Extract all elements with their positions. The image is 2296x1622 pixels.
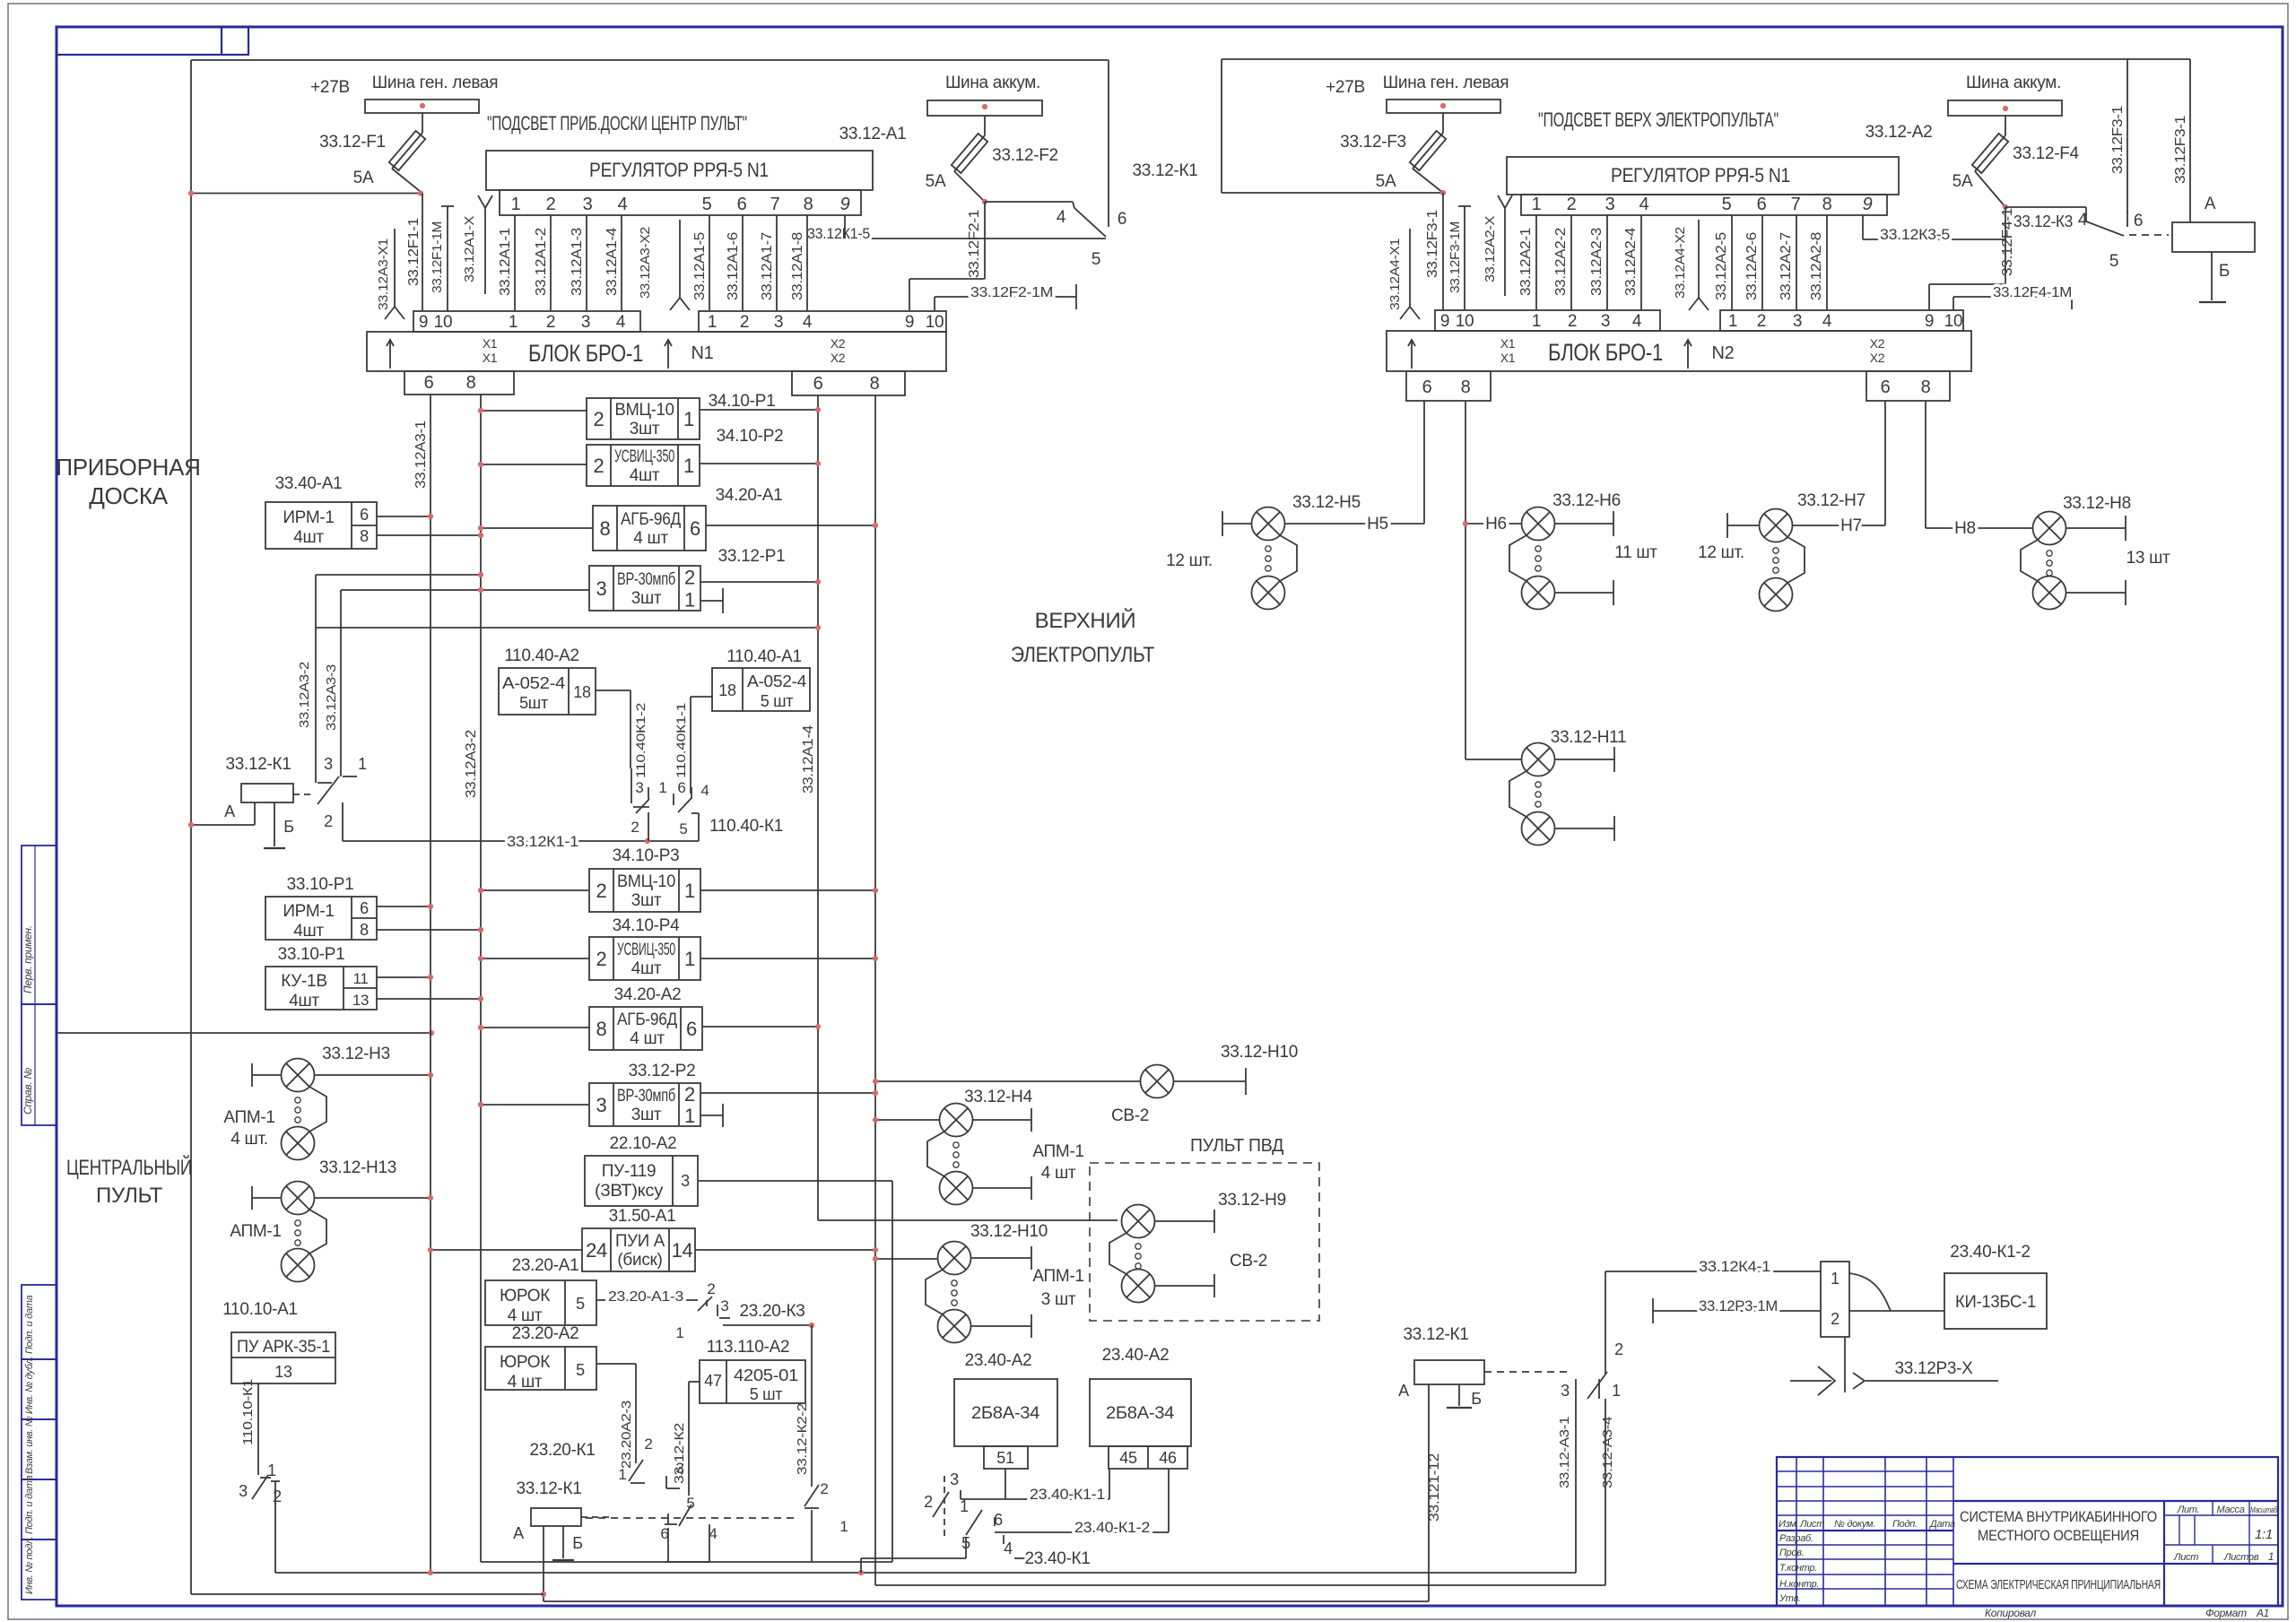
svg-text:X2: X2 [831, 351, 846, 365]
svg-text:8: 8 [360, 527, 369, 545]
svg-text:13: 13 [274, 1363, 292, 1381]
svg-text:X2: X2 [831, 336, 846, 351]
svg-text:3: 3 [596, 577, 607, 600]
svg-text:8: 8 [596, 1018, 607, 1040]
svg-text:23.40-К1: 23.40-К1 [1024, 1549, 1090, 1568]
svg-text:Разраб.: Разраб. [1779, 1533, 1813, 1544]
svg-text:110.10-К1: 110.10-К1 [240, 1379, 256, 1445]
svg-text:23.20-А1-3: 23.20-А1-3 [608, 1289, 683, 1305]
svg-text:3шт: 3шт [630, 420, 660, 438]
svg-text:8: 8 [360, 921, 369, 939]
svg-text:Дата: Дата [1928, 1519, 1955, 1530]
svg-text:1: 1 [684, 880, 695, 902]
svg-text:33.12А1-2: 33.12А1-2 [534, 228, 549, 296]
svg-text:3: 3 [581, 313, 590, 332]
svg-text:4шт: 4шт [293, 922, 324, 941]
svg-text:33.12-А2: 33.12-А2 [1865, 123, 1933, 142]
svg-text:Шина аккум.: Шина аккум. [1966, 74, 2061, 92]
svg-text:1: 1 [684, 1105, 695, 1127]
svg-text:№ докум.: № докум. [1834, 1519, 1875, 1530]
svg-text:33.12-А3-1: 33.12-А3-1 [1557, 1417, 1572, 1488]
svg-text:11: 11 [352, 970, 368, 987]
svg-text:23.40-А2: 23.40-А2 [965, 1351, 1032, 1370]
svg-text:Подп. и дата: Подп. и дата [24, 1476, 35, 1534]
svg-text:А-052-4: А-052-4 [502, 674, 565, 692]
svg-text:X2: X2 [1870, 351, 1885, 365]
svg-text:СХЕМА ЭЛЕКТРИЧЕСКАЯ ПРИНЦИПИАЛ: СХЕМА ЭЛЕКТРИЧЕСКАЯ ПРИНЦИПИАЛЬНАЯ [1956, 1577, 2161, 1592]
svg-text:КУ-1В: КУ-1В [281, 972, 326, 991]
svg-text:110.40-К1: 110.40-К1 [709, 817, 783, 836]
svg-text:1: 1 [2268, 1550, 2274, 1563]
svg-text:4шт: 4шт [630, 466, 660, 485]
svg-text:8: 8 [804, 195, 813, 214]
svg-text:33.12-К2-2: 33.12-К2-2 [795, 1403, 810, 1475]
svg-text:4: 4 [1639, 195, 1649, 214]
svg-text:33.12А1-1: 33.12А1-1 [498, 228, 513, 296]
svg-text:3: 3 [583, 195, 593, 214]
svg-text:3: 3 [239, 1482, 248, 1500]
svg-text:23.20-А2: 23.20-А2 [512, 1324, 579, 1343]
svg-text:Справ. №: Справ. № [22, 1068, 34, 1115]
svg-text:2Б8А-34: 2Б8А-34 [971, 1404, 1040, 1423]
svg-text:24: 24 [586, 1239, 607, 1262]
svg-text:2: 2 [546, 313, 555, 332]
svg-text:1: 1 [1831, 1270, 1839, 1288]
svg-text:33.12А2-5: 33.12А2-5 [1714, 232, 1729, 300]
svg-text:33.12А2-4: 33.12А2-4 [1623, 228, 1639, 296]
svg-text:34.20-А2: 34.20-А2 [614, 985, 682, 1004]
svg-text:6: 6 [686, 1018, 697, 1040]
svg-text:2: 2 [707, 1280, 715, 1297]
svg-text:БЛОК БРО-1: БЛОК БРО-1 [1548, 339, 1663, 366]
svg-text:9: 9 [1925, 312, 1934, 331]
svg-text:ЮРОК: ЮРОК [500, 1287, 550, 1305]
svg-text:РЕГУЛЯТОР РРЯ-5 N1: РЕГУЛЯТОР РРЯ-5 N1 [589, 159, 769, 181]
svg-text:33.12К4-1: 33.12К4-1 [1699, 1258, 1770, 1275]
svg-text:33.12А2-2: 33.12А2-2 [1553, 228, 1569, 296]
svg-text:Лист: Лист [2173, 1552, 2198, 1563]
svg-text:(биск): (биск) [617, 1251, 662, 1270]
svg-text:4шт: 4шт [293, 528, 324, 547]
svg-text:6: 6 [1422, 377, 1432, 397]
svg-text:18: 18 [573, 683, 591, 701]
svg-text:33.12-Н11: 33.12-Н11 [1551, 728, 1627, 747]
svg-text:13: 13 [352, 992, 369, 1009]
svg-text:33.12-Н7: 33.12-Н7 [1797, 491, 1865, 510]
svg-text:2: 2 [596, 880, 607, 902]
svg-text:4шт: 4шт [631, 959, 662, 978]
svg-text:2: 2 [1757, 312, 1766, 331]
svg-text:33.12-Н10: 33.12-Н10 [970, 1222, 1048, 1241]
svg-text:12 шт.: 12 шт. [1698, 543, 1744, 562]
svg-text:33.12-F2: 33.12-F2 [992, 146, 1058, 165]
svg-text:33.12-К1: 33.12-К1 [225, 755, 291, 774]
svg-text:1: 1 [684, 589, 695, 612]
svg-text:6: 6 [690, 517, 700, 540]
svg-text:14: 14 [672, 1239, 693, 1262]
svg-text:45: 45 [1119, 1449, 1137, 1467]
svg-text:110.10-А1: 110.10-А1 [222, 1300, 298, 1319]
svg-text:ВМЦ-10: ВМЦ-10 [615, 401, 674, 420]
svg-text:4 шт.: 4 шт. [230, 1130, 267, 1149]
svg-text:12 шт.: 12 шт. [1166, 551, 1213, 570]
svg-text:2: 2 [324, 812, 333, 830]
svg-text:33.12А1-3: 33.12А1-3 [570, 228, 585, 296]
svg-text:3: 3 [720, 1297, 728, 1314]
svg-text:6: 6 [424, 373, 434, 393]
svg-text:3: 3 [774, 313, 783, 332]
svg-text:33.12Р3-Х: 33.12Р3-Х [1894, 1359, 1973, 1378]
svg-text:3: 3 [1793, 312, 1802, 331]
svg-text:ДОСКА: ДОСКА [89, 482, 169, 509]
svg-text:23.20-К1: 23.20-К1 [529, 1441, 595, 1460]
svg-text:33.12-К1: 33.12-К1 [516, 1479, 581, 1498]
svg-text:Формат: Формат [2205, 1607, 2247, 1619]
svg-text:6: 6 [360, 506, 369, 524]
svg-text:33.12-Н5: 33.12-Н5 [1292, 493, 1361, 512]
svg-text:6: 6 [813, 374, 823, 394]
svg-text:Лит.: Лит. [2177, 1505, 2200, 1515]
svg-text:34.20-А1: 34.20-А1 [716, 486, 783, 505]
svg-text:3: 3 [1561, 1382, 1570, 1400]
svg-text:33.12А4-Х1: 33.12А4-Х1 [1387, 239, 1403, 310]
svg-text:5: 5 [576, 1361, 585, 1379]
svg-text:2Б8А-34: 2Б8А-34 [1106, 1404, 1175, 1423]
svg-text:110.40К1-1: 110.40К1-1 [674, 702, 688, 778]
svg-text:1:1: 1:1 [2255, 1527, 2273, 1542]
svg-text:4 шт: 4 шт [508, 1306, 543, 1325]
svg-text:33.40-А1: 33.40-А1 [275, 474, 343, 493]
svg-text:2: 2 [684, 567, 695, 589]
svg-text:33.12F1-1: 33.12F1-1 [406, 218, 422, 286]
svg-text:6: 6 [1118, 210, 1126, 229]
svg-text:113.110-А2: 113.110-А2 [707, 1338, 789, 1357]
svg-text:Б: Б [283, 818, 294, 836]
svg-text:4 шт: 4 шт [633, 529, 668, 548]
svg-text:33.12-Н6: 33.12-Н6 [1552, 491, 1621, 510]
svg-text:33.12-Н3: 33.12-Н3 [322, 1045, 390, 1063]
svg-text:33.12-А3-4: 33.12-А3-4 [1600, 1417, 1615, 1488]
svg-text:9: 9 [419, 313, 428, 332]
svg-text:X1: X1 [1500, 351, 1516, 365]
svg-text:33.12А4-Х2: 33.12А4-Х2 [1673, 227, 1688, 299]
svg-text:Подп.: Подп. [1892, 1519, 1918, 1530]
svg-text:23.40-К1-1: 23.40-К1-1 [1030, 1486, 1105, 1503]
svg-text:5: 5 [576, 1295, 585, 1313]
svg-text:2: 2 [631, 819, 639, 836]
svg-text:АГБ-96Д: АГБ-96Д [621, 510, 681, 529]
svg-text:1: 1 [1532, 312, 1541, 331]
svg-text:18: 18 [718, 681, 736, 699]
svg-text:10: 10 [926, 313, 944, 332]
svg-text:34.10-Р4: 34.10-Р4 [613, 916, 680, 935]
svg-text:4: 4 [1057, 208, 1066, 227]
svg-text:ПУЛЬТ: ПУЛЬТ [96, 1184, 163, 1208]
svg-text:ВЕРХНИЙ: ВЕРХНИЙ [1035, 608, 1136, 633]
svg-text:ПУИ А: ПУИ А [615, 1232, 665, 1251]
svg-text:МЕСТНОГО ОСВЕЩЕНИЯ: МЕСТНОГО ОСВЕЩЕНИЯ [1978, 1527, 2139, 1544]
svg-text:X2: X2 [1870, 336, 1885, 351]
svg-text:5: 5 [2109, 252, 2118, 271]
svg-text:33.121-12: 33.121-12 [1427, 1453, 1442, 1522]
svg-text:N1: N1 [691, 343, 714, 363]
svg-text:6: 6 [360, 899, 369, 917]
svg-text:5 шт: 5 шт [761, 692, 794, 710]
svg-text:3: 3 [1601, 312, 1610, 331]
svg-text:Лист: Лист [1799, 1519, 1824, 1530]
svg-text:5: 5 [679, 820, 687, 837]
svg-text:33.12-К3: 33.12-К3 [2013, 213, 2073, 230]
svg-text:N2: N2 [1712, 343, 1735, 363]
svg-text:33.12F3-1: 33.12F3-1 [2173, 116, 2188, 184]
svg-text:2: 2 [820, 1480, 828, 1497]
svg-text:33.12-Р2: 33.12-Р2 [629, 1062, 696, 1080]
svg-text:33.12-Н9: 33.12-Н9 [1218, 1191, 1286, 1210]
svg-text:4: 4 [803, 313, 813, 332]
svg-text:33.10-Р1: 33.10-Р1 [287, 875, 354, 894]
svg-text:1: 1 [267, 1462, 276, 1479]
svg-text:22.10-А2: 22.10-А2 [610, 1134, 677, 1153]
svg-text:33.12А3-3: 33.12А3-3 [324, 664, 339, 731]
svg-text:33.12F2-1М: 33.12F2-1М [970, 285, 1053, 300]
svg-text:33.12-Н13: 33.12-Н13 [319, 1158, 396, 1177]
svg-text:33.12К1-1: 33.12К1-1 [507, 833, 578, 850]
svg-text:5: 5 [702, 195, 712, 214]
svg-text:3 шт: 3 шт [1041, 1290, 1076, 1309]
svg-text:33.12А1-8: 33.12А1-8 [790, 232, 805, 300]
svg-text:9: 9 [905, 313, 914, 332]
svg-text:33.10-Р1: 33.10-Р1 [278, 945, 345, 964]
svg-text:3шт: 3шт [631, 891, 662, 910]
svg-text:5шт: 5шт [519, 694, 548, 712]
svg-text:А: А [2205, 195, 2216, 213]
svg-text:4: 4 [616, 313, 626, 332]
svg-text:АПМ-1: АПМ-1 [230, 1222, 281, 1241]
svg-text:Б: Б [1471, 1390, 1482, 1408]
svg-text:Масса: Масса [2216, 1505, 2244, 1515]
svg-text:ЭЛЕКТРОПУЛЬТ: ЭЛЕКТРОПУЛЬТ [1011, 643, 1155, 667]
svg-text:УСВИЦ-350: УСВИЦ-350 [617, 941, 675, 959]
svg-text:Б: Б [572, 1534, 583, 1552]
svg-text:1: 1 [509, 313, 517, 332]
svg-text:8: 8 [466, 373, 476, 393]
svg-text:46: 46 [1159, 1449, 1177, 1467]
svg-text:4: 4 [1822, 312, 1832, 331]
svg-text:1: 1 [618, 1466, 626, 1483]
svg-text:1: 1 [683, 455, 694, 477]
svg-text:33.12А2-3: 33.12А2-3 [1589, 228, 1605, 296]
svg-text:4: 4 [700, 782, 709, 799]
svg-text:33.12F4-1М: 33.12F4-1М [1993, 285, 2072, 300]
svg-text:33.12-Н10: 33.12-Н10 [1221, 1043, 1298, 1062]
svg-text:1: 1 [658, 779, 666, 796]
svg-text:23.40-К1-2: 23.40-К1-2 [1950, 1243, 2030, 1262]
svg-text:10: 10 [1944, 312, 1963, 331]
svg-text:33.12F3-1: 33.12F3-1 [1425, 210, 1440, 278]
svg-text:33.12F2-1: 33.12F2-1 [967, 210, 982, 278]
svg-text:4 шт: 4 шт [630, 1029, 665, 1048]
svg-text:4: 4 [2078, 211, 2088, 230]
svg-text:4 шт: 4 шт [1041, 1164, 1076, 1183]
svg-text:Шина аккум.: Шина аккум. [945, 74, 1040, 92]
svg-text:1: 1 [683, 408, 694, 430]
svg-text:ПУЛЬТ ПВД: ПУЛЬТ ПВД [1190, 1136, 1284, 1156]
svg-text:А: А [1398, 1382, 1409, 1400]
svg-text:9: 9 [1440, 312, 1449, 331]
svg-text:110.40К1-2: 110.40К1-2 [633, 702, 648, 778]
svg-text:ВР-30мпб: ВР-30мпб [617, 570, 675, 589]
svg-text:ЦЕНТРАЛЬНЫЙ: ЦЕНТРАЛЬНЫЙ [66, 1155, 192, 1180]
svg-text:1: 1 [511, 195, 521, 214]
svg-text:3: 3 [635, 779, 643, 796]
svg-text:10: 10 [1456, 312, 1474, 331]
svg-text:33.12-F4: 33.12-F4 [2013, 144, 2079, 163]
svg-text:"ПОДСВЕТ ВЕРХ ЭЛЕКТРОПУЛЬТА": "ПОДСВЕТ ВЕРХ ЭЛЕКТРОПУЛЬТА" [1538, 108, 1779, 131]
svg-text:34.10-Р1: 34.10-Р1 [709, 392, 776, 411]
svg-text:РЕГУЛЯТОР РРЯ-5 N1: РЕГУЛЯТОР РРЯ-5 N1 [1611, 164, 1790, 186]
svg-text:Н8: Н8 [1954, 519, 1976, 538]
svg-text:КИ-13БС-1: КИ-13БС-1 [1955, 1293, 2036, 1312]
svg-text:СВ-2: СВ-2 [1111, 1106, 1149, 1125]
svg-text:УСВИЦ-350: УСВИЦ-350 [614, 447, 674, 466]
svg-text:33.12А3-2: 33.12А3-2 [464, 730, 479, 798]
svg-text:5: 5 [1091, 250, 1100, 269]
svg-text:33.12А1-7: 33.12А1-7 [760, 232, 775, 300]
svg-text:5А: 5А [1376, 172, 1396, 191]
svg-text:3шт: 3шт [631, 1106, 662, 1124]
svg-text:X1: X1 [483, 336, 498, 351]
svg-text:33.12F4-1: 33.12F4-1 [2000, 208, 2015, 276]
svg-text:6: 6 [2134, 212, 2143, 230]
svg-text:34.10-Р3: 34.10-Р3 [613, 846, 680, 865]
svg-text:2: 2 [1568, 312, 1577, 331]
svg-text:33.12-К2: 33.12-К2 [672, 1423, 687, 1484]
svg-text:33.12А2-8: 33.12А2-8 [1809, 232, 1824, 300]
svg-text:3шт: 3шт [631, 589, 662, 608]
svg-text:1: 1 [684, 948, 695, 970]
svg-text:33.12А1-6: 33.12А1-6 [726, 232, 741, 300]
svg-text:33.12А2-Х: 33.12А2-Х [1483, 216, 1498, 282]
svg-text:33.12А2-6: 33.12А2-6 [1744, 232, 1760, 300]
svg-text:X1: X1 [1500, 336, 1516, 351]
svg-text:Листов: Листов [2223, 1552, 2259, 1563]
svg-text:33.12-Р1: 33.12-Р1 [718, 547, 786, 566]
svg-text:33.12А1-5: 33.12А1-5 [692, 232, 708, 300]
svg-text:33.12-К1: 33.12-К1 [1403, 1325, 1468, 1344]
svg-text:2: 2 [546, 195, 556, 214]
svg-text:23.20-А1: 23.20-А1 [512, 1256, 579, 1275]
svg-text:3: 3 [950, 1470, 959, 1488]
svg-text:Б: Б [2219, 262, 2230, 281]
svg-text:"ПОДСВЕТ ПРИБ.ДОСКИ ЦЕНТР ПУЛЬ: "ПОДСВЕТ ПРИБ.ДОСКИ ЦЕНТР ПУЛЬТ" [487, 112, 747, 134]
svg-text:23.20-К3: 23.20-К3 [739, 1302, 804, 1321]
svg-text:5А: 5А [926, 172, 946, 191]
svg-text:Н.контр.: Н.контр. [1779, 1579, 1819, 1590]
svg-text:А1: А1 [2256, 1607, 2269, 1619]
svg-text:X1: X1 [483, 351, 498, 365]
svg-text:(3ВТ)ксу: (3ВТ)ксу [595, 1182, 664, 1201]
svg-text:А: А [513, 1524, 524, 1542]
svg-text:ВМЦ-10: ВМЦ-10 [617, 872, 675, 891]
svg-text:8: 8 [1822, 195, 1832, 214]
svg-text:ВР-30мпб: ВР-30мпб [617, 1087, 675, 1106]
svg-text:1: 1 [675, 1324, 683, 1341]
svg-text:3: 3 [1605, 195, 1615, 214]
svg-text:33.12А2-1: 33.12А2-1 [1518, 228, 1534, 296]
svg-text:8: 8 [600, 517, 611, 540]
svg-text:5: 5 [1722, 195, 1732, 214]
svg-text:33.12К3-5: 33.12К3-5 [1880, 226, 1950, 243]
svg-text:Т.контр.: Т.контр. [1779, 1563, 1817, 1574]
svg-text:Пров.: Пров. [1779, 1548, 1805, 1558]
svg-text:33.12F1-1М: 33.12F1-1М [430, 221, 445, 293]
svg-text:ПУ-119: ПУ-119 [602, 1162, 657, 1181]
svg-text:1: 1 [1612, 1382, 1621, 1400]
svg-text:1: 1 [708, 313, 717, 332]
svg-text:4 шт: 4 шт [508, 1373, 543, 1392]
svg-text:СИСТЕМА ВНУТРИКАБИННОГО: СИСТЕМА ВНУТРИКАБИННОГО [1960, 1508, 2157, 1525]
svg-text:31.50-А1: 31.50-А1 [609, 1207, 676, 1226]
svg-text:5А: 5А [1952, 172, 1973, 191]
svg-text:110.40-А2: 110.40-А2 [504, 646, 579, 665]
svg-text:33.12А3-Х2: 33.12А3-Х2 [638, 227, 653, 299]
svg-text:3: 3 [681, 1172, 690, 1190]
svg-text:1: 1 [1728, 312, 1737, 331]
svg-text:7: 7 [770, 195, 780, 214]
svg-text:3: 3 [596, 1094, 607, 1116]
svg-text:33.12А3-2: 33.12А3-2 [297, 662, 312, 728]
svg-text:51: 51 [996, 1449, 1014, 1467]
svg-text:33.12А3-Х1: 33.12А3-Х1 [376, 239, 391, 310]
svg-text:2: 2 [273, 1488, 282, 1505]
svg-text:23.20А2-3: 23.20А2-3 [619, 1401, 634, 1469]
svg-text:8: 8 [1461, 377, 1471, 397]
svg-text:ЮРОК: ЮРОК [500, 1353, 550, 1372]
svg-text:33.12-F1: 33.12-F1 [319, 133, 386, 152]
svg-text:33.12А2-7: 33.12А2-7 [1779, 232, 1794, 300]
svg-text:1: 1 [1532, 195, 1542, 214]
svg-text:Копировал: Копировал [1985, 1607, 2037, 1619]
svg-text:33.12А1-Х: 33.12А1-Х [462, 216, 477, 282]
svg-text:ИРМ-1: ИРМ-1 [283, 902, 334, 921]
svg-text:АПМ-1: АПМ-1 [223, 1108, 274, 1127]
svg-text:9: 9 [840, 195, 850, 214]
svg-text:33.12А3-1: 33.12А3-1 [413, 421, 429, 489]
svg-text:8: 8 [1921, 377, 1931, 397]
svg-text:4: 4 [1632, 312, 1642, 331]
svg-text:Н7: Н7 [1840, 516, 1862, 535]
svg-text:33.12-К1: 33.12-К1 [1132, 161, 1197, 180]
svg-text:33.12F3-1: 33.12F3-1 [2110, 106, 2126, 174]
svg-text:5: 5 [686, 1495, 694, 1512]
svg-text:2: 2 [1614, 1340, 1623, 1358]
svg-text:БЛОК БРО-1: БЛОК БРО-1 [528, 340, 643, 367]
svg-text:33.12-Н4: 33.12-Н4 [964, 1088, 1032, 1106]
svg-text:2: 2 [1567, 195, 1577, 214]
svg-text:33.12А1-4: 33.12А1-4 [801, 725, 816, 794]
svg-text:6: 6 [737, 195, 747, 214]
svg-text:ИРМ-1: ИРМ-1 [283, 508, 334, 527]
svg-text:47: 47 [704, 1372, 722, 1390]
svg-text:11 шт: 11 шт [1614, 543, 1657, 562]
svg-text:Изм.: Изм. [1779, 1519, 1798, 1530]
svg-text:34.10-Р2: 34.10-Р2 [717, 427, 784, 446]
svg-text:Перв. примен.: Перв. примен. [22, 925, 34, 993]
svg-text:23.40-А2: 23.40-А2 [1102, 1346, 1170, 1365]
svg-text:+27В: +27В [310, 78, 350, 97]
svg-text:1: 1 [839, 1518, 848, 1535]
svg-text:33.12F3-1М: 33.12F3-1М [1448, 221, 1463, 293]
